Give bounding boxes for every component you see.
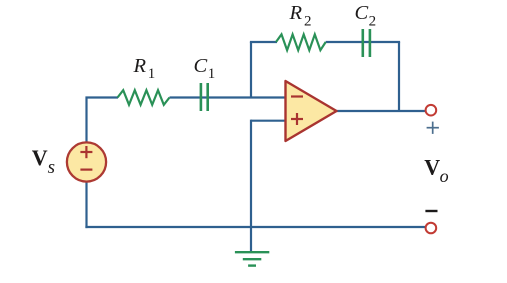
wire feedback top left segment <box>250 41 277 43</box>
capacitor C1 <box>201 83 208 111</box>
svg-text:V: V <box>32 145 48 170</box>
svg-text:o: o <box>440 166 449 186</box>
wire feedback right vertical <box>398 42 400 111</box>
op-amp U1 <box>286 81 337 141</box>
voltage source Vs <box>67 142 106 181</box>
wire from R1 through C1 to op-amp inverting input <box>170 96 286 98</box>
op-amp inverting pin minus sign <box>291 95 303 97</box>
voltage source minus sign <box>80 169 92 171</box>
svg-text:C: C <box>355 2 369 24</box>
op-amp noninverting pin plus sign <box>291 113 303 125</box>
minus polarity label <box>425 210 437 212</box>
svg-text:R: R <box>289 2 303 24</box>
svg-text:s: s <box>48 157 55 178</box>
svg-text:C: C <box>194 55 208 77</box>
voltage source plus sign <box>80 146 92 158</box>
capacitor C2 <box>363 29 370 57</box>
output terminal bottom <box>426 223 437 234</box>
svg-text:V: V <box>424 154 440 179</box>
plus polarity label <box>427 122 439 134</box>
svg-text:1: 1 <box>148 66 156 82</box>
wire from R2 through C2 to feedback right vertical <box>326 41 400 43</box>
resistor R1 <box>118 90 170 105</box>
wire op-amp output to terminal <box>336 110 426 112</box>
wire noninverting input down to ground <box>250 120 252 252</box>
wire bottom horizontal <box>85 226 425 228</box>
svg-text:2: 2 <box>304 13 312 29</box>
output terminal top <box>426 105 437 116</box>
resistor R2 <box>276 34 326 50</box>
svg-text:1: 1 <box>208 66 216 82</box>
wire op-amp noninverting input <box>251 120 286 122</box>
svg-text:R: R <box>133 55 147 77</box>
wire source bottom vertical <box>85 181 87 228</box>
wire feedback left vertical <box>250 42 252 98</box>
ground <box>235 252 269 265</box>
svg-text:2: 2 <box>369 13 377 29</box>
wire from source top to R1 <box>87 98 119 144</box>
